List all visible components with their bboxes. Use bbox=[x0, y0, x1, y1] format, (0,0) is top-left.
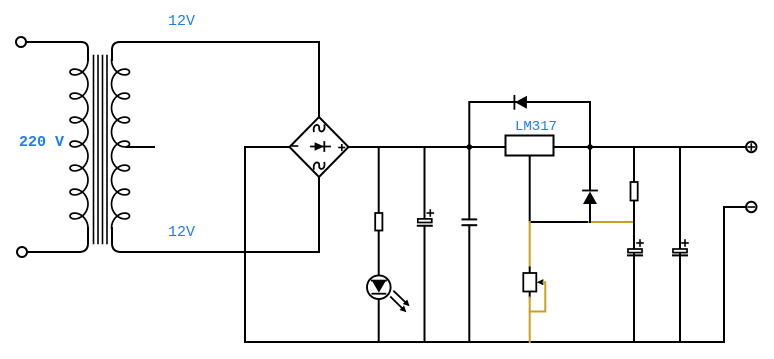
bridge rectifier BR1 body bbox=[290, 117, 349, 177]
capacitor C3 plus label bbox=[637, 240, 643, 246]
terminal AC input bottom bbox=[17, 247, 27, 257]
regulator U1 LM317 bbox=[506, 136, 554, 156]
node junction D1 rail bbox=[587, 144, 593, 150]
node junction C2 rail bbox=[467, 144, 473, 150]
resistor R2 bbox=[631, 182, 638, 201]
wire secondary bottom to bridge bbox=[112, 177, 319, 252]
resistor R1 bbox=[375, 213, 382, 231]
capacitor C3 polarized bbox=[628, 249, 642, 255]
wire pot top stub bbox=[529, 268, 531, 274]
capacitor C1 plus label bbox=[427, 210, 433, 216]
svg-text:12V: 12V bbox=[168, 224, 195, 241]
wire minus output bbox=[724, 207, 746, 342]
svg-text:LM317: LM317 bbox=[515, 119, 557, 135]
potentiometer RV1 body bbox=[523, 273, 536, 292]
bridge BR1 AC squiggle bottom bbox=[314, 162, 325, 169]
wire adjust orange segment bbox=[589, 221, 634, 223]
wire protection diode loop bbox=[469, 102, 590, 147]
transformer T1 core bbox=[94, 56, 108, 244]
svg-text:12V: 12V bbox=[168, 13, 195, 30]
wire R2 C3 branch bbox=[633, 147, 635, 342]
wire R1 LED branch bbox=[378, 147, 380, 342]
wire pot bottom orange to ground bbox=[529, 298, 531, 343]
svg-text:220 V: 220 V bbox=[19, 134, 64, 151]
bridge BR1 plus mark bbox=[339, 145, 345, 151]
terminal AC input top bbox=[16, 37, 26, 47]
diode D1 bbox=[514, 96, 527, 109]
capacitor C2 bbox=[463, 219, 477, 225]
wire primary bottom bbox=[27, 228, 88, 252]
wire adjust pin bbox=[530, 156, 589, 223]
wire pot top orange bbox=[529, 222, 531, 268]
LED D4 emission arrows bbox=[391, 291, 410, 312]
wire C2 branch bbox=[468, 147, 470, 342]
bridge BR1 internal diode bbox=[311, 142, 330, 151]
terminal minus output bbox=[746, 202, 756, 212]
wire pot wiper feedback orange bbox=[530, 282, 546, 311]
wire negative from bridge to ground rail bbox=[245, 147, 290, 342]
LED D4 bbox=[367, 275, 391, 299]
wire secondary top to bridge bbox=[112, 42, 319, 117]
wire positive rail bbox=[349, 146, 747, 148]
potentiometer RV1 wiper arrow bbox=[537, 279, 544, 285]
capacitor C1 polarized bbox=[418, 219, 432, 226]
wire primary top bbox=[26, 42, 88, 60]
transformer T1 secondary winding bbox=[112, 60, 130, 228]
wire C4 branch bbox=[679, 147, 681, 342]
transformer T1 primary winding bbox=[70, 60, 88, 228]
bridge BR1 minus mark bbox=[293, 145, 298, 147]
bridge BR1 AC squiggle top bbox=[314, 125, 325, 132]
ground rail bottom bbox=[245, 341, 724, 343]
capacitor C4 polarized bbox=[673, 249, 687, 255]
wire pot bottom stub bbox=[529, 292, 531, 298]
transformer T1 center tap bbox=[127, 146, 154, 148]
terminal plus output bbox=[746, 142, 756, 152]
wire C1 branch bbox=[424, 147, 426, 342]
diode D2 bbox=[583, 147, 597, 222]
capacitor C4 plus label bbox=[682, 240, 688, 246]
